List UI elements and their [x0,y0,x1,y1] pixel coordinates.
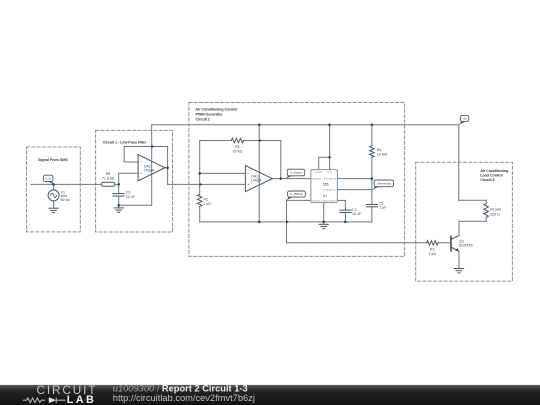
dashed box: Circuit 1 - Low Pass Filter [96,130,173,232]
wire R3 to Q1 base [438,242,451,244]
wire +5V top rail [152,124,459,126]
svg-text:V_trigger: V_trigger [290,171,302,175]
resistor R3 [427,241,438,246]
wire 555 GND pin to ground [323,203,325,224]
op-amp OA1 LM324 [245,166,272,192]
wire RLoad bottom to collector [485,217,487,221]
wire 555 DISCHARGE to Ra node [337,178,372,180]
svg-text:1 kΩ: 1 kΩ [203,202,211,206]
transistor Q1 BC547B [450,236,452,250]
svg-text:LM324: LM324 [144,168,154,172]
wire Q1 emitter to ground [458,251,460,268]
wire 555 RESET loop [319,156,330,158]
ground (Q1 emitter) [454,268,463,270]
svg-text:CONTROL: CONTROL [326,201,337,203]
wire C2 bottom to ground rail [344,213,346,222]
svg-text:TRIGGER: TRIGGER [312,179,322,181]
wire R1 right vertical to output row [280,141,282,179]
svg-text:555: 555 [323,182,329,186]
flag V_555Out [286,197,292,200]
svg-text:http://circuitlab.com/cev2fmvt: http://circuitlab.com/cev2fmvt7b6zj [113,393,255,403]
wire OA2 feedback left drop to inverting input [123,147,125,163]
wire OA2 output riser [167,147,169,185]
svg-text:OUTPUT: OUTPUT [312,201,321,203]
svg-text:U1: U1 [323,194,327,198]
svg-text:50 Hz: 50 Hz [61,198,71,202]
flag V_trigger [286,176,292,179]
svg-text:10 kΩ: 10 kΩ [233,150,243,154]
wire 555 THRESHOLD to C1 node [337,189,372,191]
svg-text:10 nF: 10 nF [352,212,362,216]
svg-text:Vthreshold: Vthreshold [377,181,391,185]
svg-text:Circuit 1 - Low Pass Filter: Circuit 1 - Low Pass Filter [103,139,147,144]
svg-text:DISCHARGE: DISCHARGE [324,178,337,181]
dashed box: Signal From SMS [27,147,81,232]
dashed box: Air Conditioning Control PWM Generator Circuit 2 [189,103,405,257]
svg-text:1 µF: 1 µF [379,205,387,209]
svg-text:BC547B: BC547B [459,244,473,248]
wire left vertical R1 to R2 [199,141,201,195]
resistor R2 [197,194,202,206]
wire OA1 inverting input [200,172,246,174]
svg-text:R2: R2 [203,197,208,201]
voltage source V1 [48,190,59,201]
wire to RLoad top [459,199,486,201]
svg-text:THRESHOLD: THRESHOLD [323,190,336,192]
wire +5v drop into circuit 3 [458,125,460,201]
node junction dots [117,183,120,186]
resistor RLoad [484,203,489,217]
wire node A down to C3 [118,184,120,193]
wire 555 CONTROL to C2 [337,199,345,201]
resistor R1 [231,138,243,143]
svg-text:Circuit 2: Circuit 2 [195,116,210,121]
wire OA2 supply vertical from +5V rail [151,125,153,206]
svg-text:RLoad: RLoad [490,208,501,212]
wire C3 bottom to ground node [118,196,120,208]
logo waveform: resistor + diode [23,398,66,403]
wire 555 OUTPUT left [287,199,311,201]
dashed box: Air Conditioning Load Control Circuit 3 [416,162,513,281]
op-amp OA2 LM324 [138,155,165,181]
wire R6 to node A [115,183,119,185]
wire 555 output drop to base row [286,200,288,242]
wire R2 bottom to ground rail [199,206,201,222]
wire 555 VCC riser [329,125,331,170]
svg-text:V_555Out: V_555Out [290,192,303,196]
ground (circuit 1) [114,207,123,209]
svg-text:LM324: LM324 [251,178,261,182]
svg-text:C3: C3 [126,190,131,194]
svg-text:RESET: RESET [315,172,323,174]
wire V1 top stub [53,184,55,190]
svg-text:VCC: VCC [327,172,332,174]
wire C1 bottom to ground rail [371,207,373,222]
svg-text:Circuit 3: Circuit 3 [480,177,495,182]
wire Ra bottom to C1 top [371,157,373,204]
capacitor C1 [366,204,377,206]
svg-text:22 nF: 22 nF [126,195,136,199]
resistor R6 [101,182,115,186]
wire base row to R3 [287,242,427,244]
flag V_in [48,182,53,185]
flag +5v (power) [459,121,465,124]
capacitor C3 [113,193,124,195]
wire main signal row from source to R6 [31,183,101,185]
svg-text:R1: R1 [235,145,240,149]
wire OA2 output stub [165,167,168,169]
wire OA1 output to 555 TRIGGER [272,178,311,180]
ground (V1) [49,207,58,209]
wire OA2 feedback top [124,146,167,148]
wire main row to OA1 plus input [168,183,246,185]
svg-text:1 kΩ: 1 kΩ [429,252,437,256]
svg-text:V_in: V_in [45,176,51,180]
ground (555 GND) [319,223,328,225]
capacitor C2 [340,209,351,211]
svg-text:Ra: Ra [377,148,382,152]
svg-text:Signal From SMS: Signal From SMS [38,157,68,162]
flag Vthreshold [372,187,379,190]
svg-text:10 MΩ: 10 MΩ [377,152,388,156]
wire crossing marks [151,145,154,148]
wire Ra top lead from rail [371,125,373,146]
svg-text:+5v: +5v [462,116,467,120]
wire ground node to OA2 negative supply [119,204,152,206]
wire OA1 supply vertical [258,125,260,222]
wire ground bottom rail [200,221,372,223]
wire V1 bottom stub to ground [53,201,55,208]
resistor Ra [370,146,375,158]
IC U1 555 timer [311,170,337,203]
svg-text:71.8 kΩ: 71.8 kΩ [102,176,115,180]
svg-text:220 Ω: 220 Ω [490,212,500,216]
svg-text:LAB: LAB [67,394,96,405]
svg-text:u1009300 / Report 2 Circuit 1-: u1009300 / Report 2 Circuit 1-3 [113,384,248,394]
wire node A riser to OA2 plus input [118,173,120,184]
wire R1 row [200,140,232,142]
svg-text:R6: R6 [106,172,111,176]
